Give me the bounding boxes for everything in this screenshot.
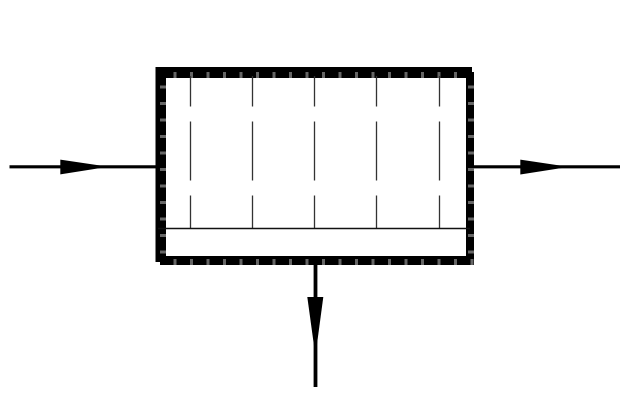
screen line S2 <box>252 76 254 229</box>
vessel body F1 solid border <box>159 70 470 259</box>
arrowhead drain <box>307 297 323 356</box>
wire inlet left <box>10 165 158 168</box>
vessel border underlay top <box>160 72 474 78</box>
screen line S5 <box>439 76 441 229</box>
vessel border dashed right <box>468 72 474 265</box>
wire outlet right <box>473 165 620 168</box>
vessel border dashed left <box>160 72 166 265</box>
screen line S4 <box>376 76 378 229</box>
wire drain bottom <box>314 262 318 387</box>
vessel border dashed top <box>160 72 474 78</box>
arrowhead outlet <box>520 160 569 175</box>
vessel border dashed bottom <box>160 259 474 265</box>
vessel border underlay bottom <box>160 259 474 265</box>
arrowhead inlet <box>60 160 108 175</box>
sump baffle line <box>158 228 470 230</box>
screen line S3 <box>314 76 316 229</box>
screen line S1 <box>190 76 192 229</box>
vessel border underlay right <box>468 72 474 265</box>
vessel border underlay left <box>160 72 166 265</box>
